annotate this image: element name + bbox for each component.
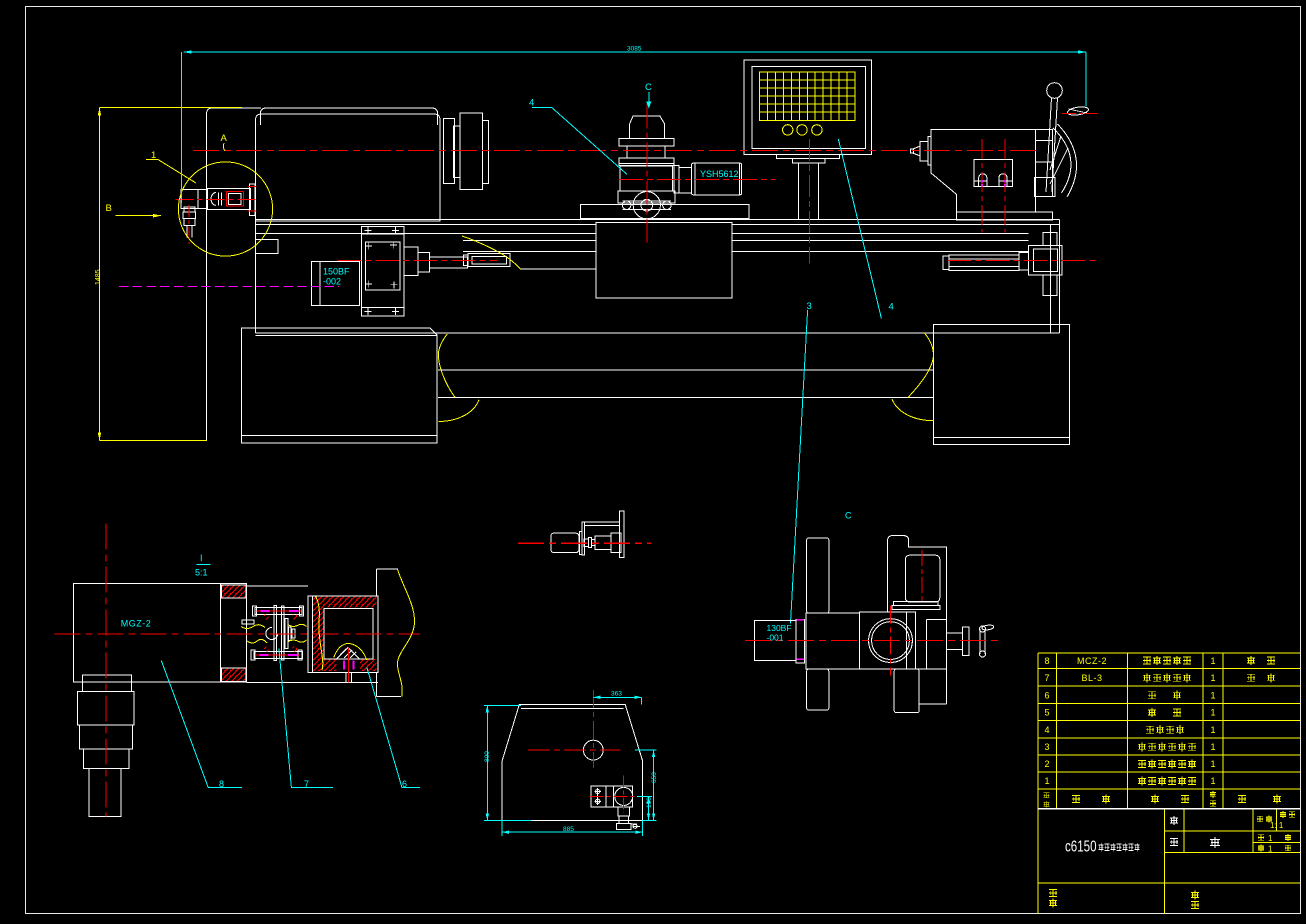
svg-text:C: C — [845, 511, 852, 521]
svg-text:4: 4 — [529, 98, 534, 109]
svg-text:c6150: c6150 — [1065, 839, 1097, 856]
svg-text:130BF: 130BF — [767, 623, 792, 633]
svg-text:1: 1 — [1210, 725, 1215, 735]
svg-text:1: 1 — [1044, 776, 1049, 786]
svg-text:1: 1 — [1210, 691, 1215, 701]
svg-text:1: 1 — [1210, 776, 1215, 786]
svg-text:7: 7 — [1044, 673, 1049, 683]
svg-text:6: 6 — [1044, 691, 1049, 701]
svg-text:363: 363 — [611, 691, 622, 698]
svg-text:-001: -001 — [767, 633, 784, 643]
svg-text:1: 1 — [1210, 656, 1215, 666]
svg-text:5: 5 — [1044, 708, 1049, 718]
svg-text:3: 3 — [1044, 742, 1049, 752]
svg-text:1485: 1485 — [95, 269, 102, 285]
svg-text:A: A — [221, 133, 228, 144]
svg-text:I: I — [200, 553, 203, 563]
svg-text:BL-3: BL-3 — [1081, 673, 1102, 683]
svg-text:1: 1 — [1210, 742, 1215, 752]
svg-text:1: 1: 1: 1 — [1270, 821, 1284, 830]
svg-text:3: 3 — [807, 301, 812, 312]
svg-text:150: 150 — [646, 797, 653, 808]
svg-text:C: C — [645, 82, 652, 93]
svg-text:650: 650 — [651, 772, 658, 783]
svg-text:800: 800 — [484, 751, 491, 762]
svg-text:1: 1 — [1268, 834, 1273, 843]
svg-text:1: 1 — [151, 150, 156, 161]
svg-text:-002: -002 — [323, 277, 341, 287]
svg-text:1: 1 — [1268, 845, 1273, 854]
svg-text:MCZ-2: MCZ-2 — [1077, 656, 1107, 666]
svg-text:1: 1 — [1210, 673, 1215, 683]
svg-text:2: 2 — [1044, 759, 1049, 769]
svg-text:4: 4 — [889, 302, 894, 313]
svg-text:4: 4 — [1044, 725, 1049, 735]
svg-text:150BF: 150BF — [323, 267, 350, 277]
svg-text:885: 885 — [563, 826, 574, 833]
svg-text:1: 1 — [1210, 708, 1215, 718]
svg-text:1: 1 — [1210, 759, 1215, 769]
svg-text:B: B — [106, 203, 112, 214]
svg-text:YSH5612: YSH5612 — [700, 169, 739, 179]
svg-text:3085: 3085 — [627, 46, 642, 53]
svg-text:MGZ-2: MGZ-2 — [121, 619, 152, 629]
svg-text:8: 8 — [1044, 656, 1049, 666]
svg-text:5:1: 5:1 — [195, 568, 208, 578]
